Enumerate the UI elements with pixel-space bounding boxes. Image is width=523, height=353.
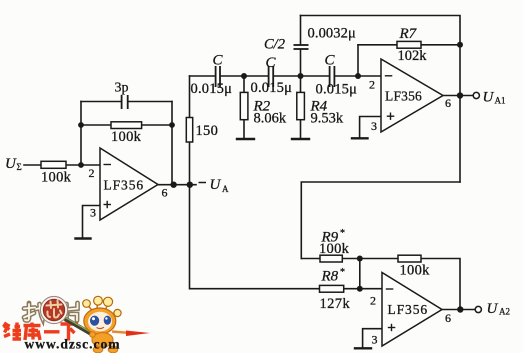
capacitor C1 0.015u xyxy=(216,66,220,87)
wire: 100k feedback mid line xyxy=(81,124,111,126)
wire: U3 pin3 to ground xyxy=(363,329,382,348)
svg-text:0.015μ: 0.015μ xyxy=(191,81,233,97)
capacitor C2 0.015u xyxy=(269,66,274,87)
terminal UA2 open circle xyxy=(475,306,481,312)
resistor 150 xyxy=(186,118,192,143)
U1 non-inverting input marker xyxy=(104,204,112,206)
wire: R7 line xyxy=(358,44,397,46)
resistor R8 xyxy=(320,285,344,292)
junction R8-U3 pin2 xyxy=(357,286,363,292)
svg-text:R7: R7 xyxy=(399,26,418,42)
svg-text:C: C xyxy=(266,55,277,71)
ground U3 xyxy=(355,347,371,349)
svg-text:2: 2 xyxy=(370,294,376,308)
junction U3 output node xyxy=(457,306,463,312)
svg-text:*: * xyxy=(340,267,345,278)
ground R4 xyxy=(292,138,309,140)
svg-text:3: 3 xyxy=(372,333,378,347)
watermark char pian xyxy=(67,303,78,321)
wire: main RC line xyxy=(190,75,215,77)
svg-text:U: U xyxy=(5,156,17,172)
wire: R8 to U3 pin2 xyxy=(344,288,382,290)
svg-text:U: U xyxy=(210,177,222,193)
wire: R9 junction to R8 junction xyxy=(359,259,361,289)
watermark magnifier lens with xin xyxy=(40,296,67,323)
svg-text:C/2: C/2 xyxy=(264,37,285,53)
svg-text:100k: 100k xyxy=(111,129,142,145)
resistor R4 xyxy=(297,92,305,119)
svg-text:8.06k: 8.06k xyxy=(254,110,287,126)
svg-text:R8: R8 xyxy=(321,269,339,285)
svg-text:LF356: LF356 xyxy=(385,89,422,104)
svg-text:*: * xyxy=(340,228,345,239)
svg-text:C: C xyxy=(325,53,336,69)
svg-text:U: U xyxy=(483,90,495,106)
junction U2 output node xyxy=(457,92,463,98)
svg-text:0.015μ: 0.015μ xyxy=(251,80,293,96)
wire: U1 output xyxy=(158,184,196,186)
svg-text:6: 6 xyxy=(162,186,168,200)
svg-text:A: A xyxy=(222,184,229,194)
wire: 0.0032u top line xyxy=(301,16,461,183)
wire: U2 pin3 to ground xyxy=(360,117,381,138)
watermark mascot xyxy=(83,296,150,353)
junction U1 feedback right xyxy=(169,122,175,128)
svg-text:150: 150 xyxy=(196,123,219,139)
wire: U1 feedback left vertical xyxy=(80,102,82,166)
svg-text:U: U xyxy=(487,301,499,317)
svg-text:3p: 3p xyxy=(115,81,129,96)
ground U1 xyxy=(76,237,91,239)
junction R9-100k feedback xyxy=(357,256,363,262)
junction C1-C2-R2 xyxy=(241,73,247,79)
wire: U1 feedback right vertical xyxy=(171,102,173,185)
svg-text:LF356: LF356 xyxy=(388,302,429,317)
wire: R2 leads xyxy=(243,76,245,92)
capacitor C3 0.015u xyxy=(330,66,335,87)
svg-text:0.0032μ: 0.0032μ xyxy=(308,26,356,42)
wire: U3 feedback right xyxy=(421,259,460,310)
wire: 3p feedback top line xyxy=(81,101,121,103)
U1 inverting input marker xyxy=(104,164,112,166)
svg-text:www.dzsc.com: www.dzsc.com xyxy=(25,337,121,352)
U2 inverting input marker xyxy=(385,75,393,77)
svg-text:3: 3 xyxy=(90,206,96,220)
terminal UA1 open circle xyxy=(473,92,479,98)
capacitor C/2 xyxy=(294,45,309,49)
watermark magnifier handle xyxy=(64,317,95,336)
U3 inverting input marker xyxy=(386,288,394,290)
svg-text:3: 3 xyxy=(371,119,377,133)
svg-text:127k: 127k xyxy=(320,296,351,312)
op-amp U1 LF356 xyxy=(89,148,168,220)
svg-text:A1: A1 xyxy=(495,96,506,106)
svg-text:2: 2 xyxy=(89,166,95,180)
svg-text:6: 6 xyxy=(445,311,451,325)
wire: R7 left vertical xyxy=(357,45,359,76)
U3 non-inverting input marker xyxy=(388,327,396,329)
wire: connector U2 out to lower stage xyxy=(301,182,460,259)
junction C2-C3-R4-C/2 xyxy=(298,73,304,79)
ground U2 xyxy=(352,137,368,139)
op-amp U3 LF356 xyxy=(370,273,451,347)
junction node UA (150 ohm / R8 tap) xyxy=(187,182,193,188)
wire: C/2 branch verticals xyxy=(300,16,302,45)
capacitor 3p xyxy=(122,95,128,109)
svg-text:A2: A2 xyxy=(499,307,510,317)
wire: R9 line xyxy=(301,258,320,260)
svg-text:2: 2 xyxy=(369,78,375,92)
resistor 100k U1 feedback xyxy=(111,122,142,129)
svg-text:9.53k: 9.53k xyxy=(311,110,344,126)
watermark char zhao xyxy=(24,303,43,320)
wire: U1 output down to R8 xyxy=(190,185,320,289)
wire: R4 leads xyxy=(300,76,302,92)
watermark red text weiku yixia xyxy=(4,323,79,341)
ground R2 xyxy=(237,138,254,140)
wire: U3 output xyxy=(442,309,475,311)
op-amp U2 LF356 xyxy=(369,59,451,133)
watermark logo dzsc xyxy=(4,296,151,353)
svg-text:102k: 102k xyxy=(398,48,428,64)
resistor R2 xyxy=(240,92,248,119)
svg-text:6: 6 xyxy=(445,96,451,110)
resistor R7 xyxy=(397,41,421,48)
svg-text:LF356: LF356 xyxy=(104,178,145,193)
svg-text:100k: 100k xyxy=(400,263,431,279)
junction C3-U2 pin2 xyxy=(355,73,361,79)
wire: U1 pin3 to ground xyxy=(83,206,101,238)
label -UA node xyxy=(199,177,230,194)
junction R7-0.0032u feedback xyxy=(457,42,463,48)
resistor 100k input xyxy=(41,161,66,168)
junction U1 pin2 input node xyxy=(78,162,84,168)
resistor R9 xyxy=(320,255,342,262)
junction U1 output node xyxy=(170,182,176,188)
junction U1 feedback left xyxy=(78,122,84,128)
wire: input from Ug xyxy=(24,164,41,166)
svg-text:Σ: Σ xyxy=(17,162,22,172)
resistor 100k U3 feedback xyxy=(398,255,421,262)
svg-text:0.015μ: 0.015μ xyxy=(316,82,358,98)
wire: 150 resistor vertical bottom xyxy=(189,142,191,185)
svg-text:100k: 100k xyxy=(41,170,72,186)
wire: 150 resistor vertical top xyxy=(189,76,191,118)
wire: U2 output xyxy=(443,95,473,97)
svg-text:C: C xyxy=(213,53,224,69)
U2 non-inverting input marker xyxy=(387,115,395,117)
svg-text:100k: 100k xyxy=(319,241,350,257)
